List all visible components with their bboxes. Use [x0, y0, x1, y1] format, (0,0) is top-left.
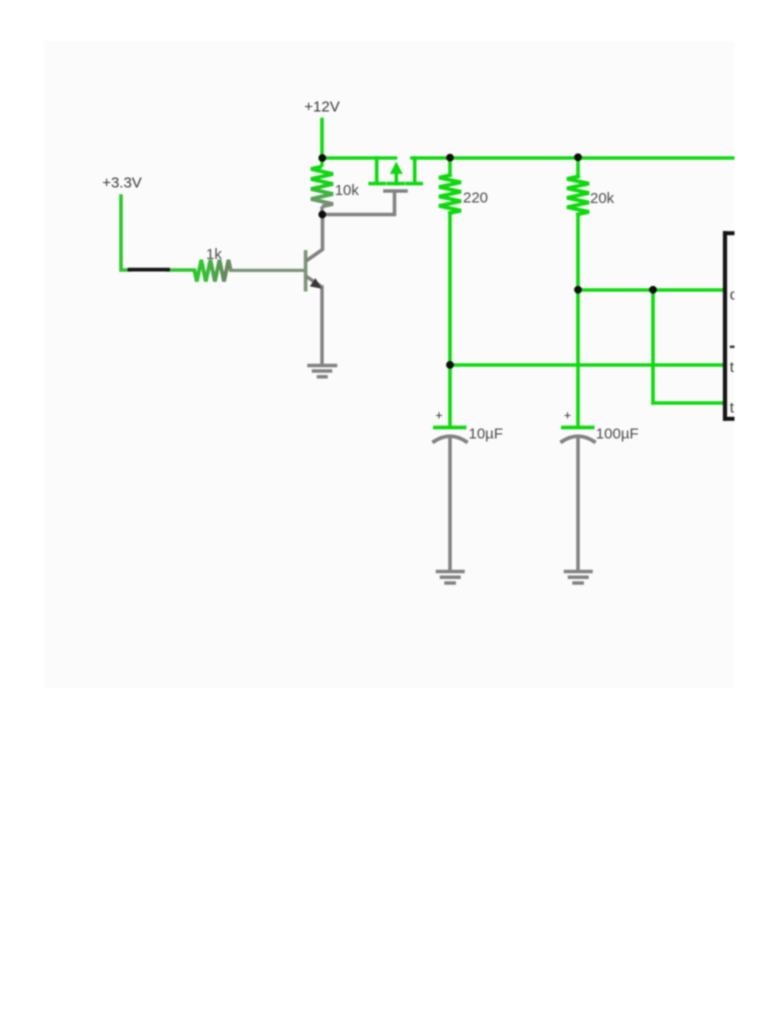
svg-text:+: + — [435, 408, 442, 422]
svg-text:20k: 20k — [590, 190, 615, 207]
svg-text:+12V: +12V — [304, 98, 339, 115]
svg-text:+: + — [564, 408, 571, 422]
svg-text:1k: 1k — [206, 246, 222, 263]
svg-text:10k: 10k — [335, 182, 360, 199]
svg-text:220: 220 — [463, 190, 488, 207]
svg-text:100µF: 100µF — [596, 425, 639, 442]
svg-text:10µF: 10µF — [469, 425, 504, 442]
svg-text:+3.3V: +3.3V — [102, 175, 142, 192]
